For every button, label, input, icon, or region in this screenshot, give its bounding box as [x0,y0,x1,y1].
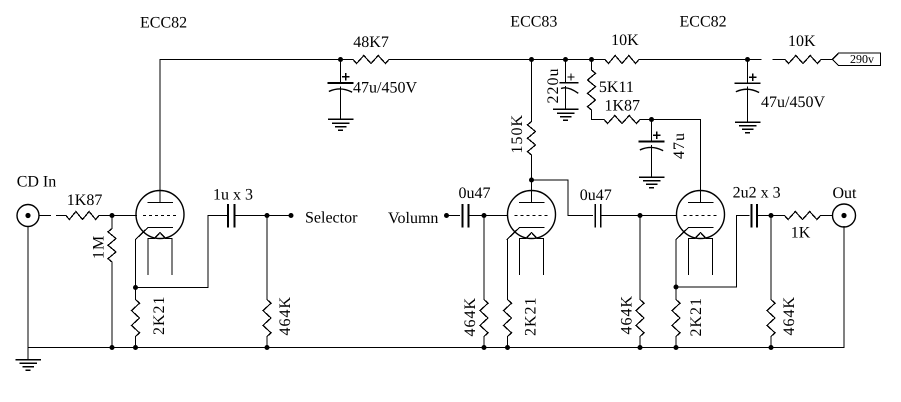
svg-text:464K: 464K [781,296,798,336]
wire V3 cathode to C 2u2 [676,216,749,288]
resistor 48K7 (rail) [353,56,389,64]
node Volumn terminal [444,213,449,218]
svg-text:464K: 464K [619,295,636,335]
svg-text:0u47: 0u47 [459,185,491,202]
svg-text:CD In: CD In [17,174,57,191]
wire B+ rail middle segment [389,59,605,61]
capacitor 47u/450V right [747,60,749,84]
capacitor 47u [651,120,653,142]
svg-text:Selector: Selector [305,210,358,227]
svg-text:220u: 220u [545,68,562,104]
node bus 2K21 V1 [133,345,138,350]
node rail at C1 [338,57,343,62]
svg-text:1K87: 1K87 [605,97,641,114]
svg-text:10K: 10K [611,32,639,49]
resistor 5K11 [591,60,593,71]
resistor 2K21 (V3 cathode) [675,287,677,300]
wire grid lead V1 [112,215,137,217]
resistor 10K (rail, right) [785,56,821,64]
svg-text:2u2 x 3: 2u2 x 3 [733,185,781,202]
node bus 464K selector [265,345,270,350]
node rail at R 150K [529,57,534,62]
svg-text:Volumn: Volumn [388,210,438,227]
svg-text:0u47: 0u47 [580,187,612,204]
svg-text:1M: 1M [91,235,108,259]
capacitor 220u [565,60,567,83]
svg-text:ECC83: ECC83 [510,14,557,31]
node bus 464K V2 [482,345,487,350]
resistor 2K21 (V1 cathode) [135,288,137,300]
svg-text:1K: 1K [791,224,811,241]
wire Volumn to C 0u47 [447,215,460,217]
node 1K87/47u junction [649,117,654,122]
svg-text:2K21: 2K21 [523,296,540,336]
wire CD jack to R 1K87 [39,215,50,217]
resistor 150K (V2 anode load) [531,60,533,122]
wire 47u node to V3 anode [652,119,701,121]
wire V2 anode to C 0u47 out [532,180,593,216]
node selector branch [265,213,270,218]
capacitor 0u47 (V2 output) [594,205,596,227]
wire Out jack ground riser [843,227,845,348]
svg-text:5K11: 5K11 [599,79,634,96]
connector Out jack [833,204,856,227]
ground under 47u [640,176,664,178]
node rail at R 5K11 [589,57,594,62]
svg-text:ECC82: ECC82 [680,14,727,31]
resistor 1K (output) [785,212,821,220]
svg-text:ECC82: ECC82 [140,15,187,32]
capacitor 0u47 (V2 input) [462,205,464,227]
svg-text:290v: 290v [850,52,874,66]
resistor 464K (output) [770,216,772,300]
resistor 2K21 (V2 cathode) [507,240,509,300]
node bus 2K21 V3 [674,345,679,350]
node bus 2K21 V2 [505,345,510,350]
wire C0u47 to V2 grid [469,215,508,217]
node output junction [769,213,774,218]
node rail at C 220u [563,57,568,62]
node bus 464K output [769,345,774,350]
triode V1 ECC82 [136,191,184,239]
node V3 cathode junction [674,285,679,290]
wire B+ rail left segment [160,59,353,61]
svg-text:Out: Out [833,185,858,202]
svg-text:1K87: 1K87 [67,192,103,209]
wire V1 cathode to C 1u [136,216,228,288]
wire ground bus [28,347,844,349]
node V1 cathode junction [133,285,138,290]
wire C2u2 to output node [757,215,785,217]
svg-text:47u/450V: 47u/450V [353,80,417,97]
ground under 47u/450V left [329,118,353,120]
wire B+ rail segment before 10K right [773,59,785,61]
node rail at C 47u/450V right [745,57,750,62]
svg-text:464K: 464K [277,296,294,336]
node V3 grid [638,213,643,218]
node V2 anode [529,178,534,183]
wire B+ rail right segment [639,59,761,61]
connector CD In jack [17,205,39,227]
resistor 1K87 (anode network) [592,119,605,121]
svg-text:2K21: 2K21 [151,295,168,335]
capacitor 47u/450V left [340,60,342,84]
svg-text:150K: 150K [509,114,526,154]
capacitor 2u2 x 3 [750,205,752,227]
triode V3 ECC82 [677,191,725,239]
supply flag 290v [833,53,881,66]
resistor 10K (rail, middle) [605,56,639,64]
wire V1 cathode drop [135,240,137,288]
wire V3 cathode drop [675,240,677,288]
svg-text:2K21: 2K21 [688,297,705,337]
ground under 220u [554,108,578,110]
wire B+ rail drop to V1 anode [159,60,161,203]
svg-text:47u: 47u [671,132,688,159]
resistor 464K (V3 grid) [639,216,641,300]
svg-text:464K: 464K [462,297,479,337]
resistor 464K (V2 grid) [483,216,485,300]
wire V2 anode into tube [531,180,533,203]
node Selector terminal [289,213,294,218]
svg-text:47u/450V: 47u/450V [761,94,825,111]
capacitor 1u x 3 [227,205,229,227]
node bus 464K V3 [638,345,643,350]
resistor 464K (selector) [266,216,268,300]
wire to 290v flag [821,59,833,61]
wire CD jack ground drop [27,227,29,360]
svg-text:1u x 3: 1u x 3 [213,186,253,203]
wire C1u to selector terminal [235,215,292,217]
node V2 grid [482,213,487,218]
resistor 1M [111,216,113,229]
wire C0u47 out to V3 grid [601,215,676,217]
ground main (left) [16,359,40,361]
svg-text:10K: 10K [788,33,816,50]
triode V2 ECC83 [508,191,556,239]
ground under 47u/450V right [736,121,760,123]
node V1 grid [110,213,115,218]
node bus 1M [110,345,115,350]
resistor 1K87 (input) [66,212,99,220]
svg-text:48K7: 48K7 [353,34,389,51]
